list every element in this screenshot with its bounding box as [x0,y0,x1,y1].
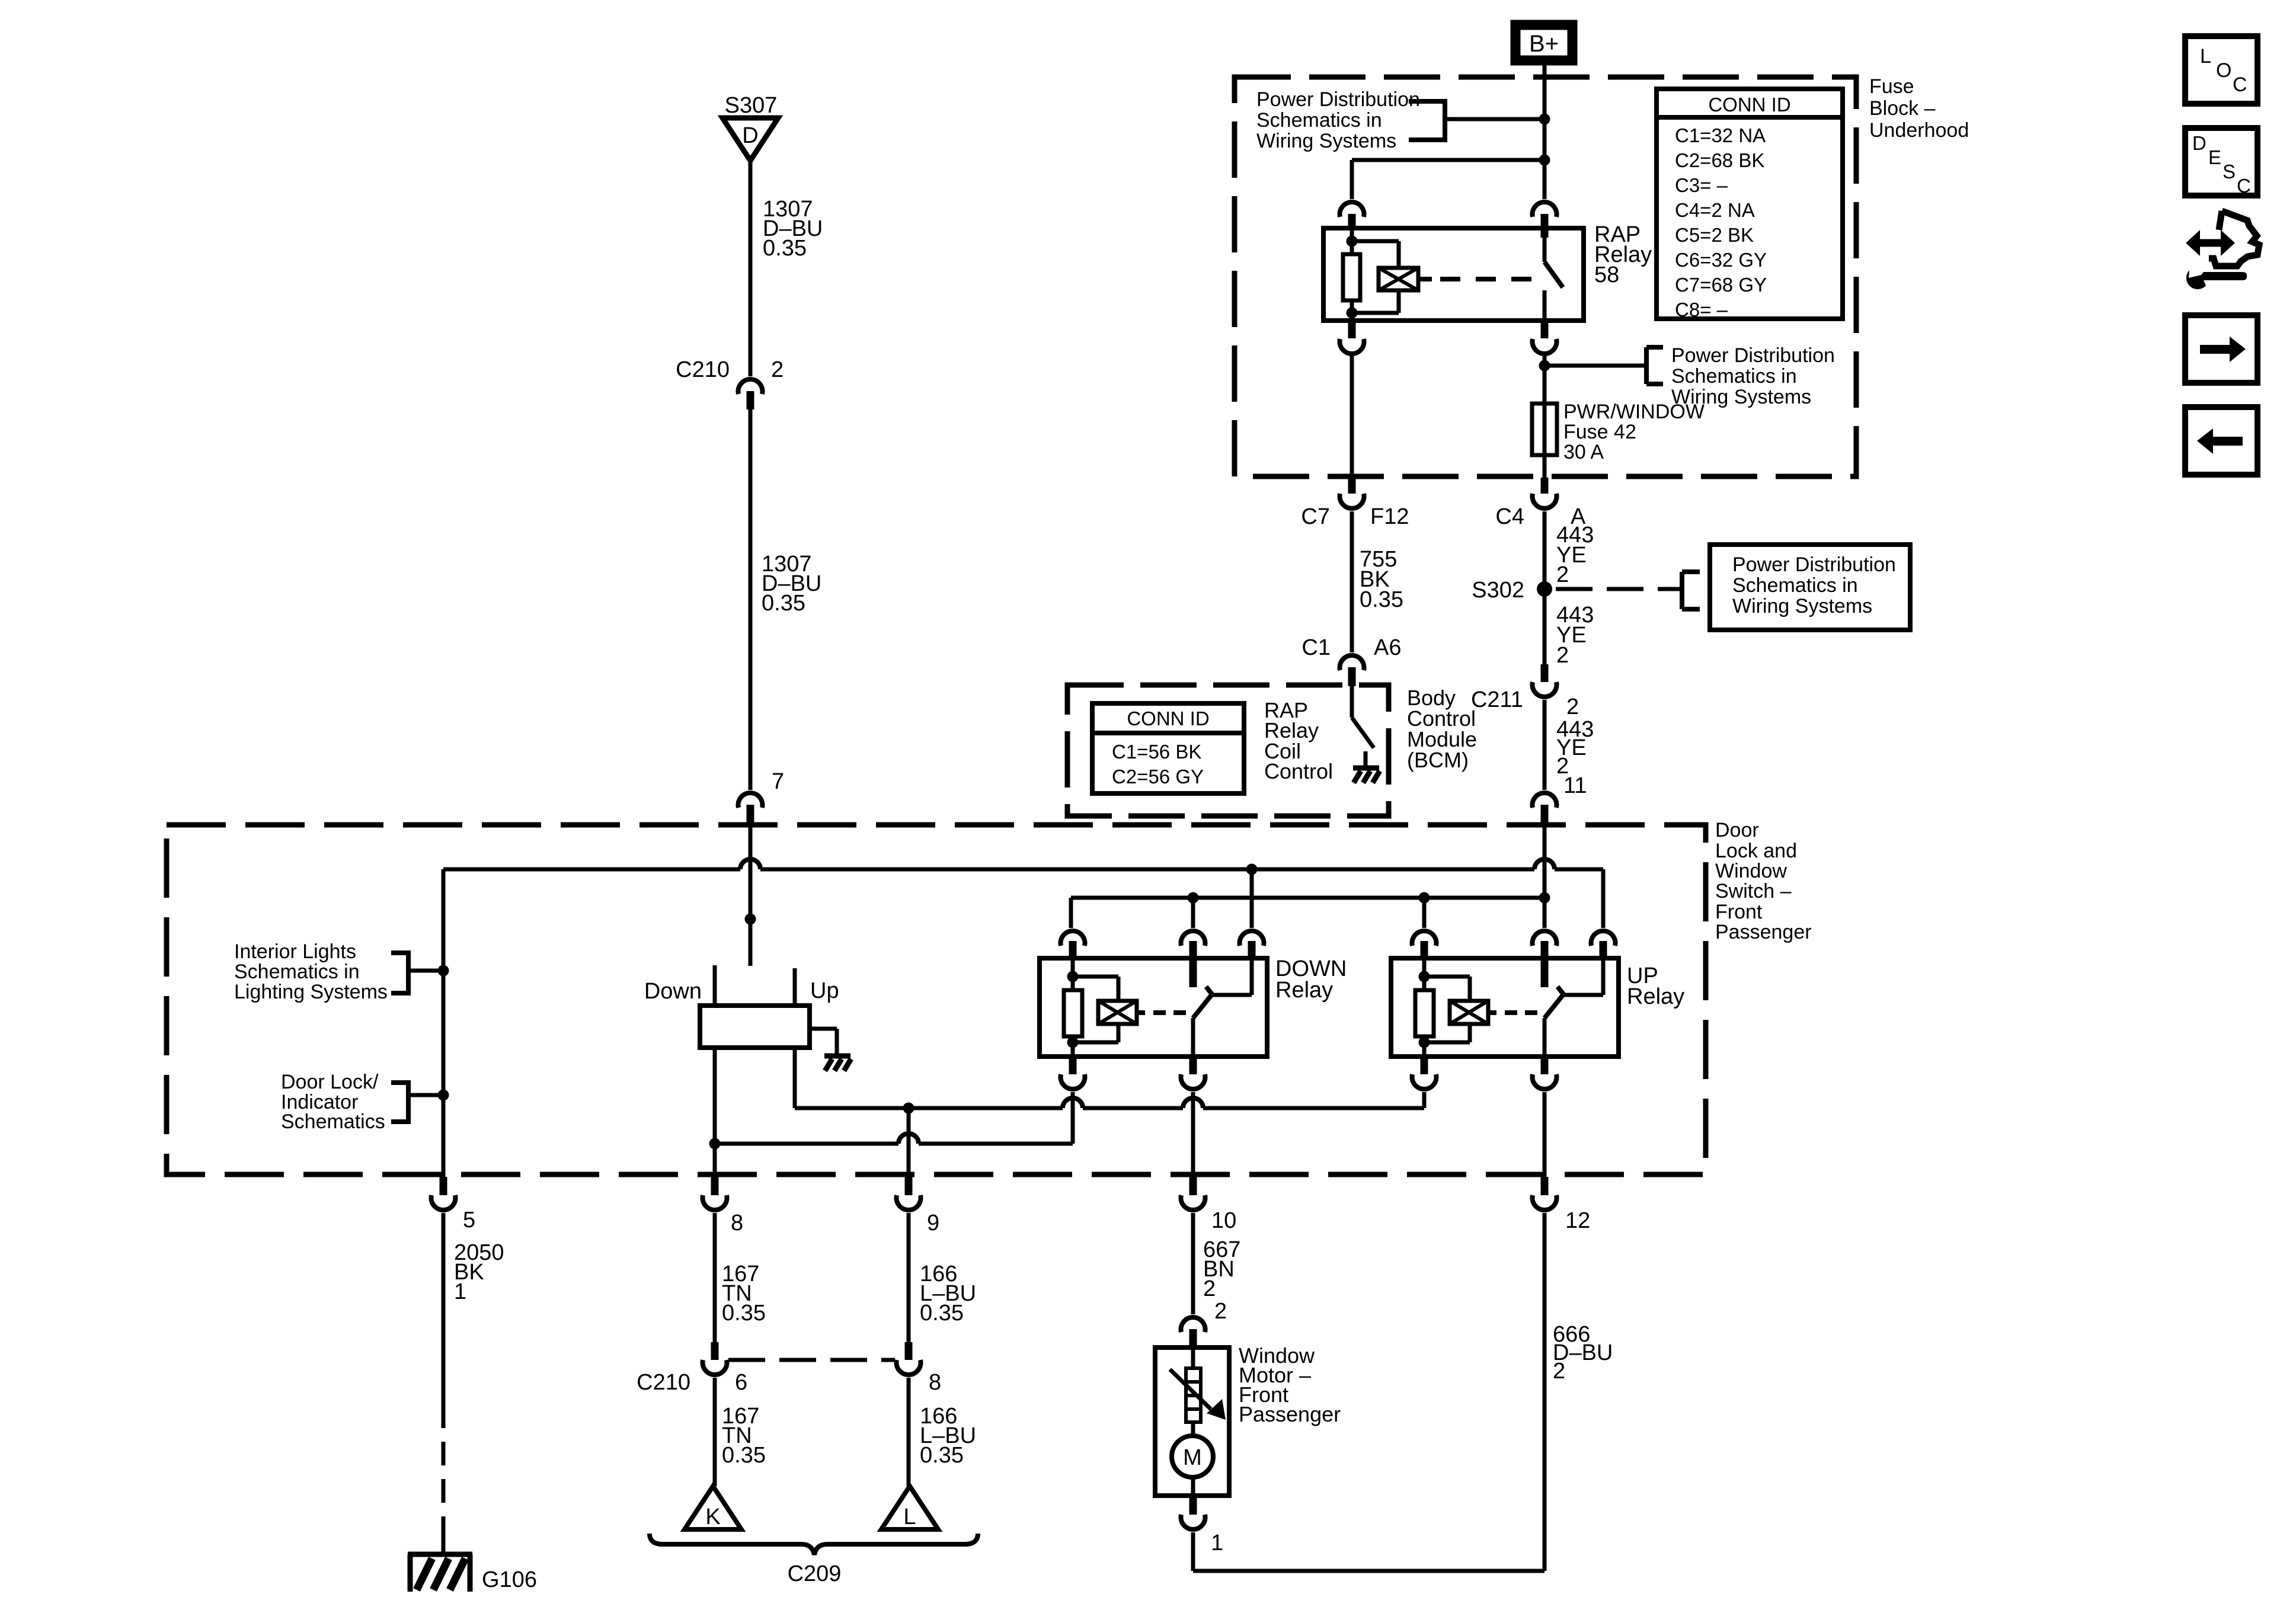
connector C210 pin 2 (in-line) [738,379,762,394]
wire ground bus drop to UP relay [1601,869,1606,928]
svg-text:C210: C210 [676,357,730,382]
connector pin 8 exit [711,1177,719,1195]
ground G106 [408,1552,472,1557]
wire 667 BN to window motor [1191,1213,1195,1314]
svg-text:B+: B+ [1529,31,1559,57]
dashed link S302 to callout [1556,587,1663,591]
window switch body [700,1006,810,1048]
wire 666 D-BU [1543,1213,1547,1571]
svg-text:K: K [705,1505,720,1529]
svg-text:CONN ID: CONN ID [1127,708,1209,729]
door lock and window switch dashed box [167,825,1706,1174]
callout bracket interior lights [391,950,408,955]
connector K to C209 [685,1486,741,1529]
table CONN ID fuse block underhood [1657,89,1843,319]
svg-text:8: 8 [929,1370,941,1395]
svg-text:1: 1 [454,1279,466,1304]
junction dot door lock callout [438,1090,449,1101]
connector L to C209 [881,1486,938,1529]
wire 2050 BK to G106 [442,1213,446,1404]
callout bracket power distribution (top) [1409,99,1445,104]
junction dot fuse feed / power distribution callout [1539,360,1550,372]
connector C210 pin 8 [905,1342,913,1360]
svg-text:0.35: 0.35 [722,1301,766,1326]
svg-text:S: S [2223,161,2236,183]
callout box Power Distribution Schematics in Wiring Systems (S302) [1710,545,1910,630]
splice triangle S307 (D) [722,118,778,161]
B+ battery feed terminal [1515,25,1572,60]
connector window motor pin 2 [1181,1317,1205,1332]
svg-text:C211: C211 [1471,687,1523,712]
connector C4 pin A (fuse block exit) [1541,478,1549,494]
svg-text:12: 12 [1565,1208,1590,1233]
svg-text:C210: C210 [637,1370,690,1395]
fuse PWR/WINDOW Fuse 42 30A [1543,404,1547,455]
icon arrow right [2185,315,2257,383]
svg-text:6: 6 [735,1370,747,1395]
svg-text:Schematics in: Schematics in [1732,574,1858,597]
svg-text:F12: F12 [1370,504,1409,529]
junction dot power bus / DOWN relay switch [1188,892,1199,904]
wire UP relay coil return [1422,1092,1427,1108]
callout bracket power distribution (S302) [1680,572,1684,609]
svg-text:PWR/WINDOW: PWR/WINDOW [1563,401,1705,423]
svg-text:S302: S302 [1472,578,1524,603]
svg-text:C209: C209 [788,1561,842,1586]
down bus to DOWN relay coil return [715,1142,898,1146]
svg-text:G106: G106 [482,1567,537,1592]
junction dot B+/RAP coil feed [1539,155,1550,166]
junction dot Down output / DOWN relay coil return [709,1138,721,1150]
svg-text:Front: Front [1715,901,1763,923]
wire UP relay switch output (pin 12) [1543,1092,1547,1177]
relay RAP Relay 58 [1323,228,1584,321]
junction dot interior lights callout [438,965,449,977]
svg-text:Schematics: Schematics [281,1110,385,1133]
wire pin 9 inside box [907,1108,911,1177]
svg-text:0.35: 0.35 [763,236,807,261]
svg-text:Window: Window [1715,860,1787,882]
connector pin 5 exit [440,1177,447,1195]
svg-text:C4=2 NA: C4=2 NA [1675,199,1755,221]
svg-text:C5=2 BK: C5=2 BK [1675,224,1754,246]
fuse block underhood dashed box [1235,77,1856,476]
connector pin 10 exit [1189,1177,1197,1195]
svg-text:Schematics in: Schematics in [234,961,360,983]
svg-text:Fuse: Fuse [1869,75,1914,98]
svg-text:2: 2 [1566,694,1579,719]
svg-text:S307: S307 [725,93,778,118]
ground bus (pin5 to relay NC contacts) [443,868,740,872]
wire 1307 D-BU from C210 to switch pin 7 [749,409,753,790]
svg-text:Block –: Block – [1869,97,1936,120]
connector window motor pin 1 [1189,1496,1197,1515]
window motor - front passenger [1155,1347,1229,1496]
relay DOWN [1040,958,1267,1057]
svg-text:Door Lock/: Door Lock/ [281,1071,379,1093]
svg-text:(BCM): (BCM) [1407,748,1469,772]
connector C1 pin A6 (BCM) [1339,655,1364,670]
BCM RAP relay coil control switch [1350,686,1354,718]
svg-text:0.35: 0.35 [762,591,805,616]
svg-text:30 A: 30 A [1563,441,1604,463]
svg-text:Switch –: Switch – [1715,880,1792,902]
icon LOC [2185,36,2257,104]
svg-text:C1=56 BK: C1=56 BK [1112,741,1201,763]
window switch ground branch [810,1027,837,1031]
wire Down output [713,1048,717,1177]
icon arrow left [2185,407,2257,475]
svg-text:C1: C1 [1302,635,1331,660]
svg-text:10: 10 [1211,1208,1236,1233]
callout bracket power distribution (mid) [1544,364,1646,368]
wire B+ to RAP relay coil [1352,158,1544,162]
svg-text:5: 5 [463,1208,475,1233]
svg-text:A6: A6 [1374,635,1401,660]
icon DESC [2185,128,2257,196]
wire 443 YE lower [1543,700,1547,790]
wire B+ down to RAP relay switch [1543,60,1547,199]
svg-text:D: D [2192,132,2207,154]
svg-text:Control: Control [1264,759,1333,783]
wire motor pin 1 to relay return [1191,1532,1195,1571]
svg-text:Schematics in: Schematics in [1671,365,1797,388]
wire fuse 42 to fuse block edge [1543,455,1547,478]
wire pin 7 to switch common [749,826,753,966]
svg-text:Fuse 42: Fuse 42 [1563,421,1636,443]
relay UP [1391,958,1619,1057]
callout bracket door lock/indicator [391,1080,408,1085]
wire pin 11 to UP relay switch [1543,826,1547,928]
wire 167 TN to K [713,1378,717,1486]
wire 1307 D-BU from S307 to C210 [749,161,753,376]
junction dot B+/power distribution callout [1539,114,1550,125]
wire pin 5 illumination ground [442,869,446,1177]
junction dot ground bus / DOWN relay contact [1246,864,1258,875]
svg-text:Underhood: Underhood [1869,119,1969,142]
svg-text:Relay: Relay [1627,984,1684,1009]
wire RAP relay to fuse 42 [1543,356,1547,404]
wire ground bus drop to DOWN relay [1250,869,1254,928]
table CONN ID BCM [1092,703,1244,793]
svg-text:C1=32 NA: C1=32 NA [1675,124,1766,146]
svg-text:7: 7 [772,769,784,794]
power bus 443 feed [1071,896,1544,900]
wire DOWN relay switch output (pin 10) [1191,1092,1195,1177]
svg-text:C4: C4 [1495,504,1524,529]
svg-text:2: 2 [1556,562,1569,587]
up bus to UP relay coil return [795,1106,1063,1110]
svg-text:E: E [2208,146,2221,168]
wire Up output [793,1048,797,1108]
svg-text:Down: Down [644,979,702,1004]
svg-text:Schematics in: Schematics in [1256,109,1382,132]
svg-text:L: L [2200,45,2211,68]
svg-text:2: 2 [1553,1359,1565,1384]
connector body C210 dashed link [728,1358,895,1362]
svg-text:0.35: 0.35 [920,1443,964,1468]
svg-text:CONN ID: CONN ID [1708,94,1790,116]
svg-text:0.35: 0.35 [920,1301,964,1326]
wire 167 TN to C210 [713,1213,717,1342]
wire 755 BK [1350,511,1354,652]
wire 443 YE upper [1543,511,1547,664]
svg-text:O: O [2216,59,2231,82]
junction dot power bus / pin 11 wire [1539,892,1550,904]
svg-text:2: 2 [1556,643,1569,668]
wire power bus to DOWN relay coil [1069,898,1073,928]
svg-text:Door: Door [1715,819,1759,841]
svg-text:2: 2 [1214,1299,1227,1324]
svg-text:C8= –: C8= – [1675,299,1728,321]
icon harness/wrench [2186,230,2200,256]
connector C210 pin 6 [711,1342,719,1360]
svg-text:8: 8 [731,1211,743,1235]
svg-text:Relay: Relay [1275,978,1333,1003]
svg-text:M: M [1183,1445,1202,1470]
connector pin 11 into switch box [1533,793,1557,808]
connector pin 12 exit [1541,1177,1549,1195]
svg-text:Power Distribution: Power Distribution [1732,553,1896,576]
svg-text:C2=68 BK: C2=68 BK [1675,149,1764,171]
wire 166 L-BU to C210 [907,1213,911,1342]
wire power bus drop UP relay coil [1422,898,1427,928]
svg-text:1: 1 [1211,1531,1223,1555]
junction dot power bus / UP relay coil [1419,892,1430,904]
svg-text:Wiring Systems: Wiring Systems [1732,595,1872,617]
svg-text:C6=32 GY: C6=32 GY [1675,249,1767,271]
wire power bus drop DOWN relay switch [1191,898,1195,928]
svg-text:C3= –: C3= – [1675,174,1728,196]
wire 166 L-BU to L [907,1378,911,1486]
svg-text:D: D [742,123,758,148]
svg-text:C: C [2237,175,2251,197]
svg-text:Passenger: Passenger [1715,921,1812,943]
svg-text:C7: C7 [1301,504,1330,529]
svg-text:L: L [903,1505,916,1529]
BCM dashed box [1067,685,1389,816]
svg-text:C2=56 GY: C2=56 GY [1112,766,1204,788]
svg-text:11: 11 [1563,773,1587,798]
connector pin 9 exit [905,1177,913,1195]
brace C209 [650,1534,978,1555]
svg-text:Up: Up [810,978,839,1003]
connector C7 pin F12 (fuse block exit) [1348,478,1356,494]
junction dot up bus / pin 9 wire [903,1103,914,1114]
wire DOWN relay coil return [1071,1092,1075,1144]
svg-text:Interior Lights: Interior Lights [234,940,356,963]
wire RAP coil to fuse block edge [1350,356,1354,478]
svg-text:Passenger: Passenger [1239,1402,1341,1426]
svg-text:Lighting Systems: Lighting Systems [234,981,388,1003]
svg-text:Lock and: Lock and [1715,840,1797,862]
connector pin 7 into switch box [738,793,763,808]
window switch contacts [713,965,717,1006]
svg-text:0.35: 0.35 [722,1443,766,1468]
svg-text:9: 9 [927,1211,939,1235]
connector C211 pin 2 [1541,664,1549,682]
svg-text:C7=68 GY: C7=68 GY [1675,274,1767,296]
svg-text:2: 2 [1203,1276,1216,1301]
svg-text:58: 58 [1594,263,1619,287]
svg-text:0.35: 0.35 [1360,587,1403,612]
splice S302 [1537,581,1552,597]
svg-text:Wiring Systems: Wiring Systems [1256,130,1396,152]
junction dot on switch common wire [745,914,756,925]
svg-text:Power Distribution: Power Distribution [1671,344,1835,367]
svg-text:Power Distribution: Power Distribution [1256,88,1420,111]
svg-text:2: 2 [771,357,784,382]
svg-text:C: C [2233,73,2247,96]
